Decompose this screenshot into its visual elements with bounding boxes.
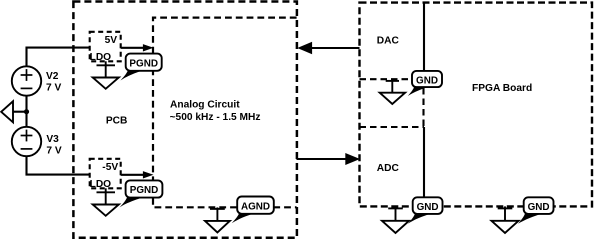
ground bottom right FPGA bbox=[504, 206, 506, 220]
ADC box top edge bbox=[360, 126, 425, 128]
GND tag (FPGA bottom) tail bbox=[518, 214, 542, 224]
svg-text:PCB: PCB bbox=[106, 115, 128, 126]
wire Analog Circuit arrow to ADC bbox=[297, 158, 347, 160]
svg-text:AGND: AGND bbox=[241, 201, 270, 212]
Analog Circuit dashed box bbox=[153, 18, 297, 208]
AGND tag bbox=[237, 197, 274, 214]
GND tag (DAC) bbox=[412, 71, 442, 87]
wire V3 bottom to LDO U2 input bbox=[27, 156, 90, 175]
PGND tag (top) bbox=[126, 54, 162, 71]
svg-text:LDO: LDO bbox=[90, 179, 112, 190]
svg-text:~500 kHz - 1.5 MHz: ~500 kHz - 1.5 MHz bbox=[170, 112, 261, 123]
voltage source V2 bbox=[12, 66, 41, 95]
PGND tag (bottom) bbox=[126, 180, 163, 197]
FPGA Board dashed box bbox=[360, 3, 593, 207]
PGND tag (bottom) tail bbox=[120, 197, 144, 207]
svg-text:7 V: 7 V bbox=[46, 83, 61, 94]
ground under LDO U2 bbox=[105, 188, 107, 204]
wire V2 bottom to V3 top bbox=[25, 96, 27, 128]
wire V2 top to LDO U1 input bbox=[27, 48, 90, 67]
wire FPGA top to GND tag bbox=[423, 3, 425, 71]
GND tag (FPGA bottom) bbox=[524, 197, 554, 214]
svg-text:GND: GND bbox=[528, 202, 550, 213]
ground (sideways) at source midpoint bbox=[1, 101, 13, 122]
svg-text:Analog Circuit: Analog Circuit bbox=[170, 100, 240, 111]
svg-text:FPGA Board: FPGA Board bbox=[472, 83, 532, 94]
svg-text:V3: V3 bbox=[46, 134, 59, 145]
DAC box bottom edge bbox=[360, 78, 415, 80]
svg-text:5V: 5V bbox=[105, 35, 118, 46]
ground on Analog bottom (AGND) bbox=[216, 207, 218, 221]
GND tag (DAC) tail bbox=[408, 86, 431, 96]
svg-text:V2: V2 bbox=[46, 71, 59, 82]
wire LDO U1 output arrow to Analog Circuit bbox=[121, 47, 144, 49]
svg-text:-5V: -5V bbox=[102, 162, 118, 173]
voltage source V3 bbox=[12, 127, 41, 156]
wire ADC right edge to GND tag bbox=[423, 127, 425, 198]
svg-text:ADC: ADC bbox=[377, 163, 400, 174]
svg-text:GND: GND bbox=[417, 202, 439, 213]
wire node to left ground bbox=[13, 111, 27, 113]
LDO U2 dashed box (-5V) bbox=[90, 159, 121, 189]
wire LDO U2 output arrow to Analog Circuit bbox=[121, 174, 144, 176]
LDO U1 dashed box (5V) bbox=[90, 32, 121, 62]
ground under DAC bbox=[391, 79, 393, 93]
svg-text:LDO: LDO bbox=[90, 52, 112, 63]
svg-text:PGND: PGND bbox=[129, 58, 158, 69]
dashed net segment GND to ADC bbox=[422, 88, 424, 127]
node junction dot bbox=[24, 109, 29, 114]
GND tag (ADC) bbox=[413, 197, 443, 214]
ground under LDO U1 bbox=[105, 61, 107, 77]
svg-text:DAC: DAC bbox=[377, 35, 400, 46]
ground under ADC bbox=[395, 206, 397, 220]
svg-text:PGND: PGND bbox=[130, 185, 159, 196]
svg-text:7 V: 7 V bbox=[46, 145, 61, 156]
svg-text:GND: GND bbox=[416, 75, 438, 86]
wire DAC output arrow to Analog Circuit bbox=[311, 47, 360, 49]
PGND tag (top) tail bbox=[121, 70, 145, 80]
PCB dashed boundary box bbox=[73, 2, 297, 238]
AGND tag tail bbox=[232, 213, 256, 223]
GND tag (ADC) tail bbox=[408, 214, 431, 224]
